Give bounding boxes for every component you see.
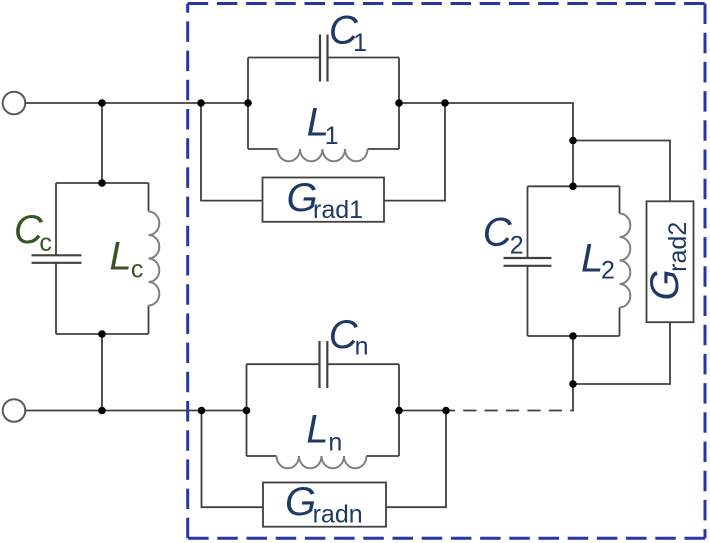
wire drop to Cc Lc top: [101, 103, 103, 183]
wire drop to Cc Lc bottom: [101, 334, 103, 411]
node right-2: [569, 380, 577, 388]
label L1: [307, 101, 339, 150]
wire from Gradn right: [386, 411, 446, 508]
node top-4: [395, 99, 403, 107]
svg-text:n: n: [355, 332, 369, 360]
label Ln: [306, 407, 342, 456]
svg-text:L: L: [306, 407, 328, 451]
svg-text:L: L: [109, 234, 131, 278]
wire node to C2 top: [572, 141, 574, 187]
wire dashed continuation: [446, 384, 573, 411]
node top-3: [244, 99, 252, 107]
terminal port top: [3, 92, 26, 115]
label Grad2: [643, 222, 692, 301]
svg-text:c: c: [131, 256, 144, 284]
resistor Grad1: [263, 178, 385, 222]
svg-text:C: C: [483, 210, 513, 254]
wire to Grad2 top: [573, 141, 670, 202]
tank C1 L1 frame: [248, 58, 399, 150]
node C2 top: [569, 183, 577, 191]
wire C2 bottom to node: [572, 336, 574, 384]
label C1: [329, 9, 367, 58]
capacitor Cc: [32, 255, 82, 262]
svg-text:c: c: [39, 229, 52, 257]
svg-text:2: 2: [510, 232, 524, 260]
wire top rail right: [399, 103, 573, 141]
wire from Grad1 right: [384, 103, 445, 201]
resistor Gradn: [263, 483, 386, 527]
label Lc: [109, 234, 143, 283]
tank Cn Ln frame: [247, 364, 400, 456]
resistor Grad2: [647, 201, 694, 322]
terminal port bottom: [3, 399, 26, 422]
svg-text:radn: radn: [313, 500, 363, 528]
node Cc top: [98, 179, 106, 187]
node bottom-1: [98, 407, 106, 415]
dashed enclosure (antenna network boundary): [188, 4, 705, 539]
wire bottom rail left: [25, 410, 247, 412]
label Cc: [14, 208, 52, 257]
tank C2 L2 frame: [528, 186, 620, 336]
node bottom-3: [243, 407, 251, 415]
node bottom-4: [395, 407, 403, 415]
svg-text:2: 2: [601, 256, 615, 284]
svg-text:L: L: [581, 236, 603, 280]
svg-text:1: 1: [325, 122, 339, 150]
wire to Gradn left: [202, 411, 264, 508]
wire from Grad2 bottom: [573, 322, 670, 384]
svg-text:G: G: [643, 269, 687, 300]
label L2: [581, 236, 615, 284]
node bottom-2: [198, 407, 206, 415]
node top-5: [441, 99, 449, 107]
node top-2: [197, 99, 205, 107]
svg-text:n: n: [328, 429, 342, 457]
node Cc bottom: [98, 330, 106, 338]
node C2 bottom: [569, 332, 577, 340]
inductor L2: [620, 214, 631, 308]
wire to Grad1 left: [201, 103, 263, 201]
inductor L1: [278, 149, 368, 161]
svg-text:rad1: rad1: [313, 196, 363, 224]
capacitor C1: [320, 35, 328, 82]
label Cn: [329, 313, 369, 360]
svg-text:1: 1: [353, 29, 367, 57]
svg-text:G: G: [285, 480, 316, 524]
node bottom-5: [442, 407, 450, 415]
capacitor C2: [504, 258, 552, 266]
svg-text:rad2: rad2: [664, 222, 692, 272]
node top-1: [98, 99, 106, 107]
label Grad1: [287, 176, 364, 224]
wire bottom rail right: [399, 410, 446, 412]
label C2: [483, 210, 524, 259]
label Gradn: [285, 480, 363, 528]
wire top rail left: [25, 102, 249, 104]
inductor Lc: [149, 212, 160, 306]
node right-1: [569, 137, 577, 145]
capacitor Cn: [320, 341, 328, 388]
tank Cc Lc frame: [56, 183, 149, 334]
inductor Ln: [277, 456, 367, 468]
